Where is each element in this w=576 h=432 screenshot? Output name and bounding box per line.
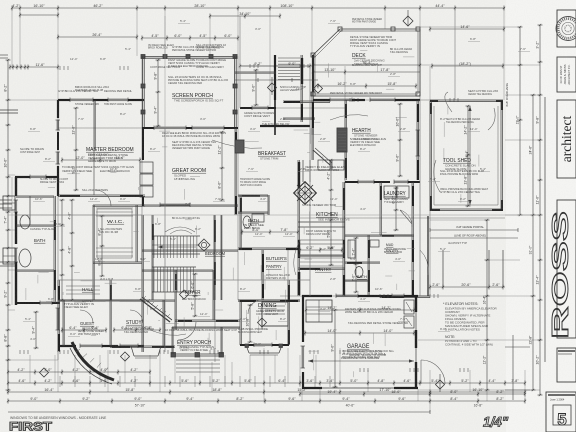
dimension line: top overall: [11, 4, 505, 11]
title block: sheet text: [548, 395, 575, 429]
room label GARAGE: [347, 344, 387, 357]
notes: above porch: [148, 43, 227, 50]
wall: laundry bottom: [380, 235, 414, 236]
diamond marker kitchen: [121, 352, 130, 361]
room label DINING: [258, 303, 277, 313]
fireplace great room: [235, 140, 244, 153]
door swing master: [95, 190, 111, 206]
garage utility boxes: [404, 300, 414, 328]
room label ENTRY PORCH: [177, 340, 211, 350]
wall: kitchen bottom: [298, 268, 345, 269]
dim chain: left yard: [32, 311, 39, 349]
reference lines: [15, 29, 505, 362]
grid line v3: [239, 16, 241, 108]
dimension line: bottom long3: [8, 410, 430, 414]
notes: garage more: [342, 349, 394, 359]
garage dim arrows: [308, 356, 414, 363]
laundry appliances: [384, 186, 412, 227]
notes: hearth more: [350, 137, 386, 147]
bottom tick row extra: [60, 376, 330, 387]
wall: tool shed bottom: [430, 209, 503, 211]
dim chain: garage top h: [305, 306, 415, 313]
wall: bath2: [238, 195, 269, 250]
wic shelves: [96, 208, 133, 256]
room label PANTRY: [315, 267, 331, 272]
bath2 fixtures: [243, 214, 264, 228]
notes: guest sub: [78, 329, 104, 336]
tool shed bench: [434, 106, 498, 205]
wall: dining top: [238, 300, 300, 301]
wall: tool shed left: [430, 101, 431, 211]
dim chain: study h: [113, 326, 161, 333]
stairs main run2: [152, 267, 196, 292]
wall: study v: [110, 280, 164, 346]
wall: dining: [240, 280, 289, 347]
entry steps: [176, 360, 220, 372]
right edge bottom vline: [505, 335, 530, 400]
wall: porch bottom: [142, 126, 238, 131]
left witness v: [0, 55, 12, 305]
wall: laundry right: [412, 182, 413, 296]
notes: right top: [468, 89, 499, 96]
wall: laundry left: [380, 182, 381, 235]
dimension line: deck top: [429, 25, 505, 32]
dimension line: right vertical garage: [485, 219, 490, 391]
wall: master bedroom top: [58, 98, 144, 103]
stairs rear core: [278, 58, 300, 80]
wall: wic: [58, 205, 145, 301]
kitchen island: [294, 182, 317, 205]
curved walk front: [40, 342, 115, 384]
tool shed leaders: [434, 92, 495, 192]
wall: front door: [175, 320, 240, 328]
room label FOYER: [185, 290, 201, 296]
dim chain: porch v: [154, 59, 161, 127]
master bath sink: [20, 215, 30, 229]
title block: date text: [558, 351, 575, 354]
left edge stub mid: [0, 200, 12, 208]
dim chain: mud v: [352, 237, 359, 293]
notes: center annotation: [240, 177, 270, 187]
room label BREAKFAST: [258, 151, 286, 161]
notes: study sub: [124, 327, 154, 334]
garage vert dim: [331, 309, 338, 388]
diamond marker bottom: [258, 312, 267, 330]
title block: ROSS text: [547, 211, 573, 339]
dimension line: left col a: [9, 63, 59, 70]
wall: core h3: [283, 101, 330, 102]
room label GUEST: [80, 321, 98, 331]
title block: address text: [560, 64, 571, 85]
notes: garage annotation: [345, 307, 408, 325]
dimension line: right vertical outer: [536, 24, 543, 396]
door swing foyer: [178, 322, 196, 340]
wall: bath interior h: [16, 225, 54, 271]
wall: gallery diagonal: [140, 296, 172, 322]
title block: architect text: [559, 116, 574, 163]
dimension line: porch top: [141, 34, 239, 41]
room label HEARTH: [352, 128, 378, 141]
title block: ross box: [557, 200, 576, 338]
title block divider line: [544, 97, 546, 362]
closet hatch hall: [66, 286, 100, 294]
notes: left bath: [30, 177, 68, 231]
dim chain: master h: [61, 156, 141, 163]
wall: tool shed top: [430, 100, 503, 102]
wall: bed2: [238, 248, 300, 301]
dimension line: bottom long2: [7, 397, 526, 404]
dim chain: dining v: [246, 304, 253, 343]
wall: master bath top: [15, 175, 59, 180]
title block: seal circle: [556, 17, 576, 41]
wall: master bedroom left: [56, 100, 61, 196]
dimension line: right vertical mid: [531, 94, 536, 391]
wall: hall west: [152, 215, 153, 300]
wall: core h4: [283, 118, 315, 119]
scale text 1/4": [483, 415, 509, 430]
dimension line: left vertical: [4, 59, 11, 391]
notes: porch mid: [168, 75, 228, 85]
dim chain: master v: [72, 107, 79, 191]
door swing guest: [80, 310, 93, 323]
dimension line: breakfast top: [239, 62, 311, 69]
wall: garage top: [302, 294, 418, 299]
notes: rear entry: [384, 247, 406, 254]
rotated text right of shed: [505, 82, 509, 107]
grid line v1: [164, 16, 166, 352]
garage rear door swing: [421, 360, 445, 384]
wall: entry porch: [171, 327, 224, 357]
dim chain: great room v: [218, 131, 225, 201]
notes: great room annotation: [162, 131, 226, 150]
dimension labels below long2: [135, 404, 483, 408]
wall: great room right: [235, 128, 236, 215]
notes: dining sub: [256, 309, 284, 316]
kitchen counters: [298, 160, 345, 244]
wall: core v3: [312, 55, 313, 135]
drafting clutter strokes: [26, 51, 479, 378]
notes: center core: [244, 85, 306, 230]
wall: garage left: [301, 296, 306, 388]
wall: stair hall east: [214, 215, 222, 300]
wall: master south: [58, 195, 145, 196]
wall: garage bottom: [302, 387, 418, 389]
dimension line: deck inner2: [312, 68, 420, 75]
diamond marker left: [180, 290, 189, 299]
label below wic: [82, 277, 113, 303]
dim chain: guest h: [61, 326, 107, 333]
notes: row above entry: [165, 328, 237, 332]
notes: porch top annotation: [168, 45, 226, 68]
room label HALL: [82, 287, 94, 292]
door swing study: [130, 310, 143, 323]
dim chain: shed v: [464, 105, 471, 207]
notes: deck annotation: [350, 35, 396, 48]
wall: rear entry: [380, 216, 430, 297]
leader 1: [212, 140, 262, 148]
notes: above deck: [352, 17, 382, 24]
wall: hearth right: [416, 100, 421, 180]
dim chain: bed2 h: [241, 228, 299, 235]
notes: porch rows2: [150, 65, 224, 69]
grid line v2: [309, 66, 311, 296]
wall: master interior v: [94, 100, 95, 195]
garage storage: [306, 300, 332, 322]
wall: core v2: [301, 55, 302, 122]
notes: hall annotation: [64, 302, 94, 309]
dim chain: laundry v: [392, 187, 399, 231]
grid line v5: [419, 100, 421, 296]
wall: bath bay window: [3, 196, 15, 264]
title block: sheet box: [546, 392, 576, 432]
wall: porch left: [141, 56, 145, 128]
notes: deck more: [330, 47, 412, 95]
room label WIC: [107, 219, 124, 224]
tick clusters: [20, 64, 468, 372]
notes: kitchen annotation: [305, 165, 345, 172]
notes: master top rows: [58, 89, 132, 106]
dimension line: bottom long1b: [7, 388, 526, 395]
room label TOOL SHED: [443, 158, 476, 171]
room label SCREEN PORCH: [172, 93, 224, 103]
kitchen mid chain: [327, 159, 334, 266]
notes: tool shed lower: [440, 187, 488, 194]
dining bay: [245, 344, 283, 355]
wall: kitchen north v: [312, 102, 332, 165]
dimension line: right vertical inner: [518, 26, 523, 216]
wall: core h2: [235, 78, 318, 82]
wall: bath closet: [16, 196, 54, 225]
dimension line: bottom long1: [7, 379, 526, 386]
door swing dining: [248, 300, 262, 314]
room label MUD ENTRY: [386, 242, 399, 253]
title block: address box: [557, 57, 576, 92]
notes: elevator: [443, 302, 498, 332]
room label MASTER BEDROOM: [86, 147, 134, 157]
room label LAUNDRY: [384, 191, 406, 197]
dimension line: bottom garage row: [299, 390, 431, 397]
room label GREAT ROOM: [172, 168, 206, 181]
left edge stub lower: [0, 262, 15, 266]
dim chain: kitchen h: [299, 246, 343, 253]
room label MBATH: [357, 274, 367, 279]
notes: foyer sub: [182, 297, 206, 301]
grid line h2: [58, 279, 310, 281]
wall: rear house top: [313, 98, 420, 103]
wall: great room left: [140, 128, 153, 206]
wall: hearth left: [345, 100, 346, 180]
wall: laundry top: [345, 180, 420, 185]
room label BUTLERS PANTRY: [266, 256, 287, 269]
notes: breakfast: [244, 111, 274, 118]
dimension line: right upper: [431, 62, 504, 69]
leader 3: [330, 115, 368, 120]
leader 2: [294, 240, 300, 275]
tool shed center dim: [465, 106, 472, 205]
grid line v4: [454, 8, 456, 100]
wall: hall lower: [142, 215, 238, 352]
wall: core h1: [235, 72, 276, 73]
hearth fireplace: [337, 128, 347, 152]
leader 4: [150, 330, 186, 335]
wall: porch right: [233, 56, 237, 128]
dim chain: wic v: [98, 215, 105, 277]
title block: seal box: [557, 10, 576, 47]
notes: butler sub: [266, 273, 290, 280]
leader 5: [420, 250, 428, 275]
wall: bath wing right: [54, 196, 55, 303]
wall: core v1: [274, 55, 276, 135]
wall: front lower: [58, 300, 144, 348]
dim chain: breakfast v: [252, 69, 259, 106]
dimension line: master top: [57, 33, 138, 40]
title block: date box: [557, 348, 576, 382]
room label BATH2: [248, 218, 259, 223]
scattered dimension labels: [23, 19, 530, 351]
note: windows: [10, 416, 107, 420]
wall: hall west: [56, 280, 61, 352]
dimension line: top second left: [19, 13, 59, 18]
title text FIRST: [9, 422, 52, 432]
room label DECK: [352, 53, 385, 66]
deck diamond marker: [403, 10, 413, 26]
notes: laundry sub: [384, 197, 408, 204]
wall: pantry: [298, 255, 345, 266]
notes: general: [445, 335, 493, 347]
wall: master bath left: [14, 177, 19, 305]
diamond marker center: [268, 77, 277, 95]
grid line h1: [8, 214, 540, 216]
wic inner shelves: [97, 209, 132, 258]
wall: mud bath walls: [345, 235, 380, 296]
notes: upper left small: [75, 85, 109, 92]
garage inner dim: [304, 329, 415, 336]
study bay: [131, 346, 161, 358]
wall: breakfast top: [240, 106, 276, 111]
wall: porch top: [141, 55, 237, 59]
wall: kitchen right: [343, 182, 344, 296]
wall: core h5: [260, 122, 310, 126]
notes: shed interior: [440, 117, 485, 176]
wall: study bottom: [110, 346, 175, 347]
wall: kitchen left: [298, 160, 299, 296]
wall: study top: [58, 300, 175, 301]
diamond marker garage: [436, 374, 445, 392]
notes: left mid: [20, 147, 44, 154]
deck posts: [311, 27, 420, 96]
stair eyebrow arcs: [165, 216, 200, 234]
notes: master mid rows: [62, 165, 134, 192]
notes: entry sub: [180, 345, 214, 352]
dim chain: foyer v: [191, 273, 198, 317]
dimension line: top second mid: [209, 12, 281, 19]
room label STUDY: [126, 320, 152, 330]
wall: tool shed right: [501, 100, 503, 211]
dimension line: right bottom row: [429, 390, 526, 397]
notes: bottom mid: [238, 327, 268, 334]
rear yard dims: [429, 241, 505, 290]
wall: garage right: [415, 296, 417, 388]
rear stoop: [262, 302, 288, 326]
dimension line: deck inner: [312, 61, 421, 68]
wall: master bath bottom: [15, 301, 60, 306]
mud bench: [348, 240, 379, 278]
dim chain: right yard h: [430, 225, 518, 238]
room label BEDROOM2: [205, 251, 225, 256]
left edge stub upper: [0, 110, 18, 113]
dim chain: hearth v: [396, 103, 403, 177]
stair newel marker: [198, 239, 210, 251]
notes: kitchen more: [302, 203, 337, 236]
title block: architect box: [557, 100, 576, 178]
right dim labels: [483, 115, 533, 364]
room label KITCHEN: [316, 212, 350, 222]
dimension line: bottom row3: [7, 368, 151, 375]
wall: great room bottom: [143, 203, 238, 208]
notes: master bedroom sub: [88, 153, 128, 163]
left col chains: [60, 199, 75, 301]
wall: deck outline: [313, 29, 420, 96]
dim chain: deck h: [317, 82, 417, 89]
stairs main run1: [152, 236, 200, 258]
room label BATH: [34, 238, 45, 243]
notes: wic sub: [100, 227, 122, 234]
wall: mud top: [345, 235, 412, 236]
deck diamond marker2: [314, 84, 323, 93]
master bath tub: [19, 249, 31, 267]
wall: foyer: [175, 270, 214, 330]
